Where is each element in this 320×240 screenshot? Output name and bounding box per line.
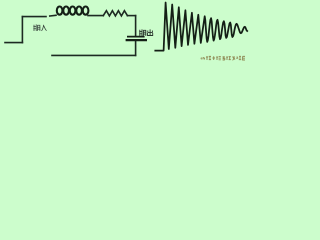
label 输入 char 2 (ru)	[42, 25, 47, 31]
wire into inductor	[50, 14, 56, 17]
wire capacitor to bottom rail	[135, 41, 137, 55]
wire node down to capacitor	[135, 16, 137, 36]
capacitor C top plate	[127, 36, 145, 38]
output damped oscillation waveform	[155, 3, 247, 51]
input step high level wire	[22, 16, 46, 18]
resistor R zigzag	[103, 11, 127, 16]
inductor L coil loops	[57, 7, 89, 15]
label 输出 char 1 (shu)	[139, 29, 146, 36]
bottom return rail	[52, 54, 136, 56]
wire inductor to resistor	[88, 15, 103, 17]
capacitor C bottom plate	[126, 39, 147, 41]
watermark cn xitu juejin tech community	[201, 56, 245, 60]
input step rising edge	[21, 17, 23, 43]
background	[0, 0, 250, 62]
wire resistor to node	[127, 15, 135, 17]
input step waveform low level wire	[5, 42, 22, 44]
label 输入 char 1 (shu)	[33, 24, 40, 31]
label 输出 char 2 (chu)	[148, 29, 153, 35]
